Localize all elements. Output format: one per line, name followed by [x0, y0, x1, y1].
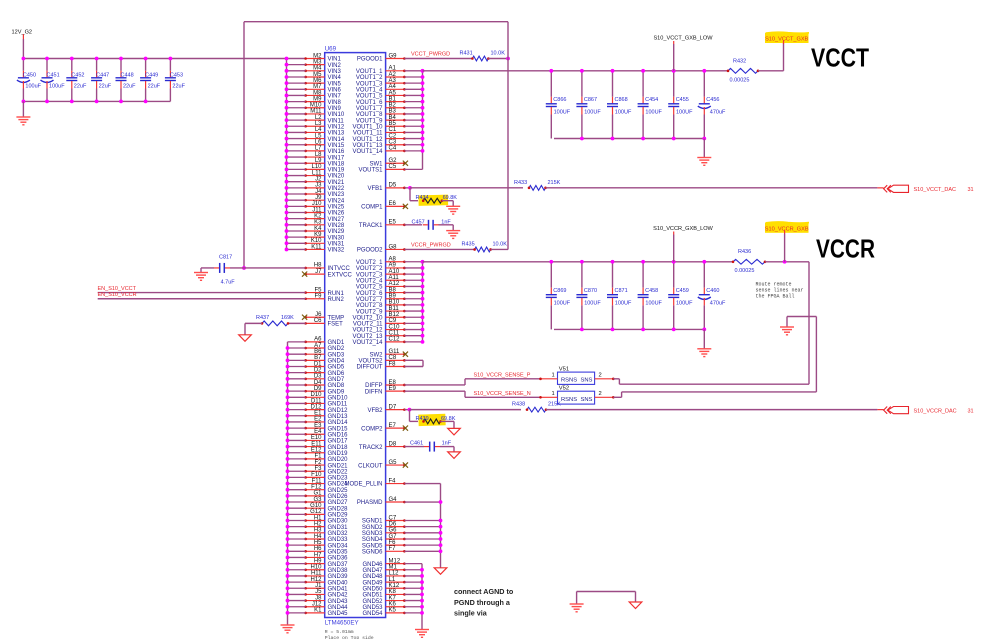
capacitor C456	[698, 71, 726, 139]
svg-text:VOUT1_10: VOUT1_10	[352, 124, 383, 130]
wire sense N riser	[815, 317, 817, 392]
wire DIFFP to jog	[404, 384, 465, 386]
svg-text:GND54: GND54	[362, 611, 383, 617]
node VCCT gnd rail junction	[672, 137, 676, 141]
U69 pin GND40 (H12)	[288, 577, 349, 586]
node right GND bus junction	[420, 586, 424, 590]
node VIN bus junction	[285, 100, 289, 104]
node VOUT2 bus junction	[421, 315, 425, 319]
svg-text:F7: F7	[389, 546, 397, 552]
node VCCR rail junction	[611, 260, 615, 264]
svg-text:GND46: GND46	[362, 562, 383, 568]
U69 pin GND9 (D9)	[288, 386, 345, 395]
svg-text:M9: M9	[313, 96, 322, 102]
U69 pin VOUT2_4 (A11)	[356, 275, 423, 284]
capacitor C451	[41, 59, 66, 102]
svg-text:D10: D10	[310, 392, 322, 398]
svg-text:F2: F2	[314, 460, 322, 466]
svg-text:VIN17: VIN17	[328, 155, 345, 161]
U69 pin GND5 (D1)	[288, 361, 345, 370]
svg-text:VOUT2_11: VOUT2_11	[353, 322, 383, 328]
svg-text:SGND1: SGND1	[362, 519, 383, 525]
node right GND bus junction	[420, 599, 424, 603]
node 12V rail junction	[45, 57, 49, 61]
node left GND bus junction	[286, 574, 290, 578]
svg-text:COMP2: COMP2	[361, 426, 383, 432]
svg-text:J4: J4	[315, 189, 322, 195]
node 12V rail junction	[70, 57, 74, 61]
svg-text:D2: D2	[314, 367, 322, 373]
U69 pin MODE_PLLIN (F4)	[344, 478, 405, 487]
node left GND bus junction	[286, 439, 290, 443]
node left GND bus junction	[286, 451, 290, 455]
U69 pin VOUT1_6 (B1)	[356, 96, 423, 105]
svg-text:V51: V51	[559, 366, 569, 372]
ground	[16, 117, 30, 125]
node left GND bus junction	[286, 488, 290, 492]
U69 pin VIN27 (K2)	[287, 213, 345, 222]
node VOUT1 bus junction	[421, 131, 425, 135]
node SGND bus junction	[439, 537, 443, 541]
svg-text:B11: B11	[389, 306, 400, 312]
svg-text:PGOOD1: PGOOD1	[357, 57, 383, 63]
node input cap gnd junction	[70, 100, 74, 104]
svg-text:D4: D4	[314, 380, 322, 386]
svg-text:GND15: GND15	[328, 426, 349, 432]
U69 pin GND19 (E12)	[288, 448, 349, 457]
svg-text:GND42: GND42	[328, 593, 349, 599]
svg-text:B4: B4	[389, 115, 397, 121]
node VIN bus junction	[285, 149, 289, 153]
wire C817 right lead	[230, 267, 244, 269]
wire tie to DIFFOUT	[404, 366, 423, 368]
U69 pin VOUT1_9 (B4)	[356, 115, 423, 124]
node 12V rail junction	[144, 57, 148, 61]
U69 pin VOUT1_3 (A3)	[356, 78, 423, 87]
U69 pin VOUT1_4 (A4)	[356, 84, 423, 93]
svg-text:K10: K10	[311, 238, 322, 244]
node VIN bus junction	[285, 198, 289, 202]
U69 pin GND28 (G10)	[288, 503, 349, 512]
note connect AGND to PGND	[454, 587, 514, 618]
node VIN bus junction	[285, 161, 289, 165]
svg-text:470uF: 470uF	[710, 109, 726, 115]
U69 pin VIN22 (J3)	[287, 183, 345, 192]
svg-text:K9: K9	[314, 232, 322, 238]
node VCCR gnd rail junction	[611, 328, 615, 332]
node VCCT gnd rail junction	[641, 137, 645, 141]
node VIN bus junction	[285, 186, 289, 190]
svg-text:GND34: GND34	[328, 543, 349, 549]
svg-text:F4: F4	[389, 478, 397, 484]
U69 pin EXTVCC (J7)	[302, 269, 353, 278]
wire VCCR rail	[423, 261, 734, 263]
U69 pin GND25 (F12)	[288, 485, 349, 494]
U69 pin GND16 (E4)	[288, 429, 349, 438]
U69 pin GND48 (L12)	[362, 571, 422, 580]
svg-text:RSNS: RSNS	[561, 377, 577, 383]
node VIN bus junction	[285, 229, 289, 233]
U69 pin GND38 (H10)	[288, 565, 349, 574]
svg-text:VOUT1_5: VOUT1_5	[356, 94, 383, 100]
U69 pin VIN9 (M10)	[287, 103, 342, 112]
svg-text:L6: L6	[315, 140, 322, 146]
svg-text:GND39: GND39	[328, 574, 349, 580]
svg-text:RSNS: RSNS	[561, 397, 577, 403]
svg-text:E2: E2	[314, 417, 322, 423]
U69 pin VOUT1_1 (A1)	[356, 66, 423, 75]
svg-text:C450: C450	[23, 72, 36, 78]
U69 pin VIN5 (M6)	[287, 78, 342, 87]
svg-text:GND40: GND40	[328, 580, 349, 586]
svg-text:VOUT2_9: VOUT2_9	[356, 309, 383, 315]
resistor R432	[727, 58, 760, 73]
wire R439 gnd drop	[453, 421, 455, 428]
svg-text:VOUT2_1: VOUT2_1	[356, 260, 383, 266]
svg-text:VOUT1_3: VOUT1_3	[356, 81, 383, 87]
U69 pin DIFFOUT (F8)	[357, 361, 406, 370]
svg-text:EN_S10_VCCT: EN_S10_VCCT	[98, 286, 137, 292]
U69 pin GND14 (E2)	[288, 417, 349, 426]
U69 pin SGND4 (G7)	[362, 534, 441, 543]
capacitor C454	[638, 71, 663, 139]
svg-text:G4: G4	[389, 497, 398, 503]
svg-text:C6: C6	[314, 318, 322, 324]
svg-text:VOUT2_7: VOUT2_7	[356, 297, 383, 303]
node VOUT2 bus junction	[421, 272, 425, 276]
node left GND bus junction	[286, 395, 290, 399]
svg-text:A4: A4	[389, 84, 397, 90]
svg-text:A6: A6	[314, 337, 322, 343]
svg-text:F6: F6	[389, 540, 397, 546]
node VIN bus junction	[285, 118, 289, 122]
svg-text:B3: B3	[389, 109, 397, 115]
svg-text:VOUT1_13: VOUT1_13	[352, 143, 383, 149]
wire sense P return	[619, 383, 809, 385]
wire EN_S10_VCCT	[98, 292, 306, 294]
U69 pin GND17 (E10)	[288, 435, 349, 444]
node left GND bus junction	[286, 426, 290, 430]
wire pullup top rail	[244, 21, 508, 23]
node SGND bus junction	[439, 531, 443, 535]
svg-text:G5: G5	[389, 460, 398, 466]
svg-text:GND21: GND21	[328, 463, 349, 469]
svg-text:H1: H1	[314, 515, 322, 521]
svg-text:VIN22: VIN22	[328, 186, 345, 192]
svg-text:M5: M5	[313, 72, 322, 78]
U69 pin TEMP (J6)	[302, 312, 344, 321]
U69 pin GND10 (D10)	[288, 392, 349, 401]
svg-text:GND8: GND8	[328, 383, 345, 389]
node left GND bus junction	[286, 593, 290, 597]
svg-text:SNS: SNS	[581, 397, 593, 403]
svg-text:2: 2	[599, 391, 602, 397]
svg-text:VIN32: VIN32	[328, 248, 345, 254]
node VCCR gnd rail junction	[580, 328, 584, 332]
node VCCR gnd rail junction	[641, 328, 645, 332]
node VIN bus junction	[285, 155, 289, 159]
U69 pin VOUTS2 (C8)	[358, 355, 405, 364]
U69 pin VOUT2_13 (C11)	[352, 331, 422, 340]
wire GXB riser	[783, 43, 785, 71]
svg-text:100UF: 100UF	[554, 300, 571, 306]
wire via tie right drop	[635, 592, 637, 603]
U69 pin VIN17 (L8)	[287, 152, 345, 161]
net S10_VCCT_GXB_LOW label	[653, 35, 713, 44]
svg-text:VIN30: VIN30	[328, 235, 345, 241]
svg-text:S10_VCCR_GXB: S10_VCCR_GXB	[765, 226, 809, 232]
wire VCCT rail	[423, 70, 729, 72]
wire C457 gnd drop	[452, 225, 454, 231]
U69 pin DIFFN (E9)	[365, 386, 406, 395]
svg-text:31: 31	[968, 409, 974, 415]
svg-text:VOUT2_14: VOUT2_14	[352, 340, 383, 346]
node VOUT2 bus junction	[421, 321, 425, 325]
svg-text:VOUT2_3: VOUT2_3	[356, 272, 383, 278]
svg-text:DIFFOUT: DIFFOUT	[357, 365, 383, 371]
U69 pin GND45 (K1)	[288, 608, 349, 617]
net 12V_G2 label	[12, 29, 33, 39]
svg-text:L7: L7	[315, 146, 322, 152]
node VOUT2 bus junction	[421, 309, 425, 313]
svg-text:R437: R437	[256, 315, 269, 321]
U69 pin GND18 (E11)	[288, 441, 349, 450]
resistor R431	[460, 50, 506, 61]
svg-text:A5: A5	[389, 90, 397, 96]
svg-text:GND12: GND12	[328, 408, 349, 414]
wire MODE_PLLIN to bus	[404, 483, 440, 485]
node VCCR rail junction	[702, 260, 706, 264]
svg-text:E9: E9	[389, 386, 397, 392]
svg-text:PHASMD: PHASMD	[357, 500, 383, 506]
svg-text:VIN20: VIN20	[328, 174, 345, 180]
U69 pin GND34 (H5)	[288, 540, 349, 549]
node left GND bus junction	[286, 377, 290, 381]
wire GXB riser	[784, 234, 786, 262]
node VCCR GXB node	[783, 260, 787, 264]
svg-text:PGOOD2: PGOOD2	[357, 248, 383, 254]
svg-text:C449: C449	[145, 72, 158, 78]
U69 pin VIN31 (K10)	[287, 238, 345, 247]
svg-text:J11: J11	[312, 207, 322, 213]
U69 pin VOUT1_13 (C3)	[352, 140, 422, 149]
node right GND bus junction	[420, 574, 424, 578]
node VOUT1 bus junction	[421, 87, 425, 91]
svg-text:D7: D7	[389, 404, 397, 410]
svg-text:VFB2: VFB2	[367, 408, 383, 414]
svg-text:A10: A10	[389, 269, 400, 275]
wire input cap bottom rail	[23, 100, 170, 102]
wire VFB2 long wire to DAC	[410, 409, 522, 411]
node left GND bus junction	[286, 562, 290, 566]
svg-text:GND44: GND44	[328, 605, 349, 611]
svg-text:DIFFN: DIFFN	[365, 389, 383, 395]
svg-text:S10_VCCR_SENSE_N: S10_VCCR_SENSE_N	[474, 391, 531, 397]
svg-text:VOUT2_5: VOUT2_5	[356, 285, 383, 291]
svg-text:GND52: GND52	[362, 599, 383, 605]
svg-text:VOUT1_14: VOUT1_14	[352, 149, 383, 155]
svg-text:C8: C8	[389, 355, 397, 361]
node VIN bus junction	[285, 81, 289, 85]
svg-text:L8: L8	[315, 152, 322, 158]
wire C461 gnd drop	[453, 447, 455, 452]
port S10_VCCT_DAC	[877, 185, 973, 193]
svg-text:GND3: GND3	[328, 352, 345, 358]
wire pullup riser	[507, 22, 509, 250]
svg-text:H2: H2	[314, 521, 322, 527]
U69 pin VIN24 (J9)	[287, 195, 345, 204]
svg-text:B12: B12	[389, 312, 400, 318]
svg-text:VFB1: VFB1	[367, 186, 383, 192]
svg-text:B1: B1	[389, 96, 397, 102]
wire sense N top	[787, 316, 816, 318]
capacitor C871	[607, 262, 632, 330]
U69 pin PGOOD2 (G8)	[357, 244, 406, 253]
U69 pin VOUT1_5 (A5)	[356, 90, 423, 99]
svg-text:C817: C817	[219, 254, 232, 260]
U69 pin VIN29 (K4)	[287, 226, 345, 235]
wire R437 to gnd corner	[245, 322, 262, 324]
U69 pin GND8 (D4)	[288, 380, 345, 389]
U69 pin GND13 (E1)	[288, 411, 349, 420]
U69 pin VIN18 (L9)	[287, 158, 345, 167]
node right GND bus junction	[420, 605, 424, 609]
svg-text:VOUTS1: VOUTS1	[358, 168, 383, 174]
capacitor C447	[91, 59, 112, 102]
svg-text:C9: C9	[389, 318, 397, 324]
wire R433 to port	[546, 187, 878, 189]
wire R435 to riser	[491, 248, 508, 250]
svg-text:GND28: GND28	[328, 506, 349, 512]
U69 pin GND29 (G12)	[288, 509, 349, 518]
wire drop to R434	[410, 200, 418, 202]
svg-text:S10_VCCR_DAC: S10_VCCR_DAC	[914, 409, 957, 415]
svg-text:G6: G6	[389, 528, 398, 534]
wire tie vertical	[422, 360, 424, 366]
wire R438 to port	[546, 409, 877, 411]
svg-text:RUN1: RUN1	[328, 291, 345, 297]
U69 pin VOUT2_6 (B8)	[356, 287, 423, 296]
wire gnd drop	[22, 101, 24, 117]
svg-text:100UF: 100UF	[676, 300, 693, 306]
U69 pin GND32 (H3)	[288, 528, 349, 537]
U69 pin VOUTS1 (C5)	[358, 164, 422, 173]
svg-text:K6: K6	[389, 602, 397, 608]
svg-text:F8: F8	[389, 361, 397, 367]
svg-text:TEMP: TEMP	[328, 315, 345, 321]
node VIN bus junction	[285, 174, 289, 178]
wire FSET to R437	[288, 322, 306, 324]
node VOUT2 bus junction	[421, 334, 425, 338]
node VOUT2 bus junction	[421, 303, 425, 307]
svg-text:GND5: GND5	[328, 365, 345, 371]
svg-text:GND10: GND10	[328, 396, 349, 402]
U69 pin GND35 (H6)	[288, 546, 349, 555]
node left GND bus junction	[286, 371, 290, 375]
svg-text:M1: M1	[389, 565, 398, 571]
wire PHASMD to bus	[404, 501, 440, 503]
net S10_VCCR_GXB_LOW label	[653, 226, 713, 235]
svg-text:E1: E1	[314, 411, 322, 417]
node VOUT1 bus junction	[421, 149, 425, 153]
U69 pin GND42 (J5)	[288, 589, 349, 598]
node VOUT2 bus junction	[421, 291, 425, 295]
svg-text:R434: R434	[416, 195, 429, 201]
svg-text:J8: J8	[315, 595, 322, 601]
svg-text:GND6: GND6	[328, 371, 345, 377]
U69 pin VIN10 (M11)	[287, 109, 345, 118]
svg-text:S10_VCCT_GXB: S10_VCCT_GXB	[765, 37, 808, 43]
node SGND bus junction	[439, 549, 443, 553]
wire R432 to GXB	[758, 70, 784, 72]
node VCCR rail junction	[580, 260, 584, 264]
U69 pin GND26 (G1)	[288, 491, 349, 500]
svg-text:B8: B8	[389, 287, 397, 293]
U69 pin GND47 (M1)	[362, 565, 422, 574]
capacitor C448	[116, 59, 137, 102]
svg-text:C12: C12	[389, 337, 401, 343]
svg-text:SNS: SNS	[581, 377, 593, 383]
wire VFB1 long wire to DAC	[410, 187, 523, 189]
svg-text:VIN13: VIN13	[328, 131, 345, 137]
svg-text:VOUT2_6: VOUT2_6	[356, 291, 383, 297]
node VCCR gnd rail junction	[702, 328, 706, 332]
svg-text:SGND4: SGND4	[362, 537, 383, 543]
wire C817 gnd drop	[200, 268, 202, 273]
capacitor C868	[607, 71, 632, 139]
svg-text:F11: F11	[312, 478, 323, 484]
svg-text:EXTVCC: EXTVCC	[328, 272, 353, 278]
node input cap gnd junction	[22, 100, 26, 104]
svg-text:SGND6: SGND6	[362, 550, 383, 556]
wire V51 out drop	[618, 379, 620, 384]
svg-text:M3: M3	[313, 59, 322, 65]
U69 pin VOUT2_8 (B10)	[356, 300, 423, 309]
ground AGND	[629, 602, 642, 609]
svg-text:K11: K11	[311, 244, 322, 250]
node VIN bus junction	[285, 94, 289, 98]
node left GND bus junction	[286, 611, 290, 615]
net S10_VCCR_GXB label (highlighted)	[765, 222, 809, 234]
capacitor C452	[66, 59, 87, 102]
U69 pin VIN7 (M8)	[287, 90, 342, 99]
ground	[446, 206, 460, 214]
node input cap gnd junction	[144, 100, 148, 104]
node VCCT gnd rail junction	[702, 137, 706, 141]
svg-text:J5: J5	[315, 589, 322, 595]
node left GND bus junction	[286, 599, 290, 603]
svg-text:100UF: 100UF	[584, 300, 601, 306]
wire C461 to gnd	[440, 446, 454, 448]
U69 pin GND22 (F3)	[288, 466, 349, 475]
resistor R435	[462, 241, 508, 252]
U69 pin VIN11 (L2)	[287, 115, 345, 124]
ground	[780, 327, 794, 335]
svg-text:VOUTS2: VOUTS2	[358, 359, 383, 365]
U69 pin GND46 (M12)	[362, 558, 422, 567]
svg-text:GND31: GND31	[328, 525, 349, 531]
svg-text:S10_VCCT_GXB_LOW: S10_VCCT_GXB_LOW	[653, 35, 713, 41]
node VCCT rail junction	[549, 69, 553, 73]
U69 pin GND12 (D12)	[288, 404, 349, 413]
svg-text:VIN1: VIN1	[328, 57, 342, 63]
U69 pin VIN12 (L3)	[287, 121, 345, 130]
svg-text:B7: B7	[314, 355, 322, 361]
svg-text:VOUT1_8: VOUT1_8	[356, 112, 383, 118]
U69 pin VOUT1_14 (C4)	[352, 146, 422, 155]
U69 pin GND23 (F10)	[288, 472, 349, 481]
svg-text:E3: E3	[314, 423, 322, 429]
